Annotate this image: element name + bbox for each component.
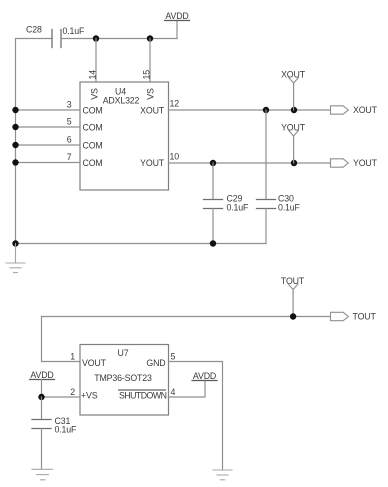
svg-text:COM: COM — [83, 123, 103, 133]
svg-text:VS: VS — [146, 88, 156, 100]
svg-text:XOUT: XOUT — [353, 105, 378, 115]
junction: C28/pin14 node — [93, 35, 99, 41]
svg-text:YOUT: YOUT — [353, 158, 378, 168]
wire: C31 bottom lead — [41, 429, 43, 470]
wire: pin 4 (SHUTDOWN) to AVDD — [169, 381, 206, 398]
wire: left rail from C28 down to bottom bus — [16, 39, 53, 244]
svg-text:COM: COM — [83, 141, 103, 151]
wire: C29 top lead (from YOUT) — [212, 163, 214, 200]
svg-text:10: 10 — [170, 152, 180, 162]
svg-text:12: 12 — [170, 99, 180, 109]
wire: pin 14 drop — [95, 39, 97, 83]
junction: bus/C29 — [210, 240, 216, 246]
junction: AVDD/C31 — [38, 394, 44, 400]
svg-text:ADXL322: ADXL322 — [103, 96, 140, 106]
svg-text:YOUT: YOUT — [281, 123, 306, 133]
junction: YOUT/C29 — [210, 160, 216, 166]
svg-text:0.1uF: 0.1uF — [55, 424, 78, 434]
net flag YOUT — [281, 123, 306, 164]
IC U7 body (TMP36-SOT23 temperature sensor) — [80, 345, 169, 416]
wire: C30 bottom lead — [265, 209, 267, 244]
junction: rail/pin7 — [12, 159, 18, 165]
junction: pin15 node — [147, 35, 153, 41]
power symbol AVDD (bottom left) — [30, 370, 55, 397]
junction: XOUT/C30 — [263, 107, 269, 113]
capacitor C31 — [32, 416, 77, 435]
svg-text:COM: COM — [83, 106, 103, 116]
wire: bottom ground bus — [16, 243, 267, 245]
junction: TOUT/flag — [290, 313, 296, 319]
ground (earth, below C31) — [32, 469, 53, 480]
wire: pin 6 COM — [16, 144, 81, 146]
svg-text:5: 5 — [67, 116, 72, 126]
svg-text:0.1uF: 0.1uF — [63, 26, 86, 36]
svg-text:XOUT: XOUT — [281, 70, 306, 80]
ground (earth, top section) — [6, 263, 25, 273]
wire: TOUT down to pin 1 — [42, 317, 81, 362]
svg-text:7: 7 — [67, 152, 72, 162]
svg-text:AVDD: AVDD — [193, 371, 216, 381]
svg-text:0.1uF: 0.1uF — [278, 203, 301, 213]
svg-text:TOUT: TOUT — [353, 312, 377, 322]
wire: YOUT net — [169, 162, 331, 164]
svg-text:6: 6 — [67, 134, 72, 144]
svg-text:YOUT: YOUT — [140, 158, 165, 168]
svg-text:C28: C28 — [26, 25, 42, 35]
wire: C28 to AVDD corner — [61, 38, 177, 40]
svg-text:VOUT: VOUT — [82, 358, 107, 368]
junction: bus/rail — [12, 240, 18, 246]
junction: rail/pin3 — [12, 107, 18, 113]
wire: C30 top lead (from XOUT) — [265, 110, 267, 200]
U7 pin name SHUTDOWN (with overline) — [119, 390, 167, 401]
junction: YOUT/flag — [291, 160, 297, 166]
wire: C31 top lead — [41, 397, 43, 420]
svg-text:SHUTDOWN: SHUTDOWN — [119, 391, 167, 401]
svg-text:+VS: +VS — [81, 391, 98, 401]
svg-text:U7: U7 — [118, 348, 129, 358]
junction: rail/pin6 — [12, 142, 18, 148]
wire: pin 3 COM — [16, 109, 81, 111]
wire: pin 2 (+VS) — [42, 396, 81, 398]
connector TOUT — [331, 312, 377, 322]
svg-text:TOUT: TOUT — [281, 276, 305, 286]
svg-text:14: 14 — [88, 70, 98, 80]
wire: XOUT net — [169, 109, 331, 111]
capacitor C28 — [26, 25, 85, 48]
svg-text:VS: VS — [90, 88, 100, 100]
net flag XOUT — [281, 70, 306, 111]
wire: C29 bottom lead — [212, 209, 214, 244]
svg-text:2: 2 — [70, 387, 75, 397]
connector XOUT — [331, 105, 378, 115]
capacitor C29 — [204, 194, 250, 213]
power symbol AVDD (bottom right) — [192, 371, 217, 381]
svg-text:4: 4 — [171, 387, 176, 397]
wire: pin 7 COM — [16, 162, 81, 164]
wire: ground stub (top section) — [15, 244, 17, 264]
svg-text:AVDD: AVDD — [30, 370, 53, 380]
svg-text:0.1uF: 0.1uF — [227, 203, 250, 213]
junction: XOUT/flag — [291, 107, 297, 113]
svg-text:5: 5 — [171, 352, 176, 362]
junction: rail/pin5 — [12, 124, 18, 130]
svg-text:15: 15 — [142, 70, 152, 80]
net flag TOUT — [281, 276, 305, 317]
connector YOUT — [331, 158, 378, 168]
capacitor C30 — [257, 194, 301, 213]
wire: TOUT net — [42, 316, 331, 318]
svg-text:XOUT: XOUT — [140, 106, 165, 116]
svg-text:TMP36-SOT23: TMP36-SOT23 — [94, 373, 152, 383]
ground (earth, right) — [213, 470, 232, 480]
svg-text:AVDD: AVDD — [165, 11, 188, 21]
wire: pin 15 drop — [149, 39, 151, 83]
svg-text:COM: COM — [83, 158, 103, 168]
wire: pin 5 COM — [16, 126, 81, 128]
svg-text:1: 1 — [70, 352, 75, 362]
wire: pin 5 (GND) to right — [169, 362, 223, 471]
power symbol AVDD (top) — [165, 11, 190, 39]
svg-text:3: 3 — [67, 99, 72, 109]
svg-text:GND: GND — [146, 358, 165, 368]
IC U4 body (ADXL322 accelerometer) — [80, 82, 169, 190]
